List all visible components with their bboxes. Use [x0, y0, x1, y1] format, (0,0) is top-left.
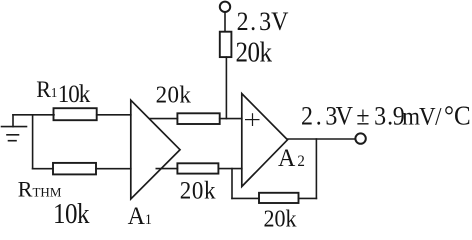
svg-text:R1: R1	[36, 77, 57, 103]
wire feedback tap to feedback resistor	[232, 197, 259, 199]
wire 20k to A2 noninverting input	[220, 118, 242, 120]
plus sign A2 noninverting input	[246, 114, 259, 126]
wire RTHM to A1 input	[96, 168, 131, 170]
wire feedback tap vertical	[231, 169, 233, 199]
wire A1 top output to 20k	[150, 118, 177, 120]
wire terminal to supply resistor	[224, 12, 226, 32]
svg-text:20k: 20k	[180, 177, 217, 205]
resistor 20k feedback	[259, 193, 299, 203]
resistor 20k top middle	[177, 113, 219, 124]
svg-text:A1: A1	[128, 203, 152, 227]
svg-text:A2: A2	[278, 145, 305, 173]
resistor RTHM	[53, 163, 96, 175]
terminal 2.3V top	[220, 2, 230, 12]
wire ground node to R1	[13, 114, 54, 116]
resistor 20k bottom middle	[177, 163, 218, 173]
wire supply resistor to junction	[225, 57, 227, 119]
svg-text:20k: 20k	[236, 36, 273, 68]
svg-text:20k: 20k	[156, 82, 192, 109]
svg-text:2.3V: 2.3V	[237, 8, 289, 36]
svg-text:20k: 20k	[264, 205, 297, 227]
terminal output	[355, 133, 365, 143]
wire output tap vertical	[315, 139, 317, 198]
svg-text:2.3V±3.9mV/°C: 2.3V±3.9mV/°C	[301, 100, 471, 130]
wire 20k to A2 inverting input	[218, 168, 241, 170]
resistor 20k supply	[220, 32, 232, 57]
op-amp A1	[131, 100, 180, 199]
svg-text:10k: 10k	[58, 81, 91, 108]
wire left branch vertical	[32, 115, 34, 169]
wire A1 bottom output to 20k	[156, 168, 177, 170]
wire R1 to A1 input	[97, 114, 131, 116]
wire A2 output	[288, 138, 356, 140]
wire junction to RTHM	[33, 168, 53, 170]
ground	[2, 115, 27, 141]
svg-text:10k: 10k	[53, 198, 90, 227]
op-amp A2	[242, 94, 288, 187]
resistor R1	[54, 108, 97, 120]
wire feedback resistor to output tap	[299, 197, 317, 199]
